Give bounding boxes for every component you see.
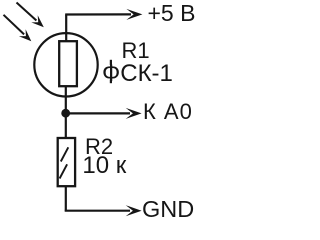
svg-text:К A0: К A0 <box>143 99 193 124</box>
photoresistor R1 body rectangle <box>59 41 77 86</box>
svg-text:GND: GND <box>142 196 194 222</box>
wire: top vertical from corner into R1 <box>65 15 67 43</box>
wire: bottom vertical from R2 <box>65 186 67 212</box>
svg-text:10 к: 10 к <box>82 152 126 179</box>
light arrow 2 (lower illumination arrow) <box>4 15 32 42</box>
wire: middle horizontal to K A0 <box>66 112 130 114</box>
svg-text:+5 В: +5 В <box>148 0 196 26</box>
wire: top horizontal to +5 V <box>65 13 131 15</box>
resistor R2 body rectangle <box>58 138 75 186</box>
node junction dot <box>61 109 70 118</box>
arrowhead to +5 V <box>126 9 142 20</box>
arrowhead to K A0 <box>126 108 142 119</box>
svg-text:ФСК-1: ФСК-1 <box>102 60 173 87</box>
photoresistor R1 circle <box>34 33 97 96</box>
label FSK-1 value <box>110 60 112 65</box>
R2 diagonal stroke 2 <box>60 164 68 178</box>
R2 diagonal stroke 1 <box>61 147 69 161</box>
wire: vertical from R1 bottom through node to R2 top <box>65 87 67 140</box>
light arrow 1 (upper illumination arrow) <box>17 3 44 28</box>
arrowhead to GND <box>126 205 142 216</box>
wire: bottom horizontal to GND <box>65 210 130 212</box>
